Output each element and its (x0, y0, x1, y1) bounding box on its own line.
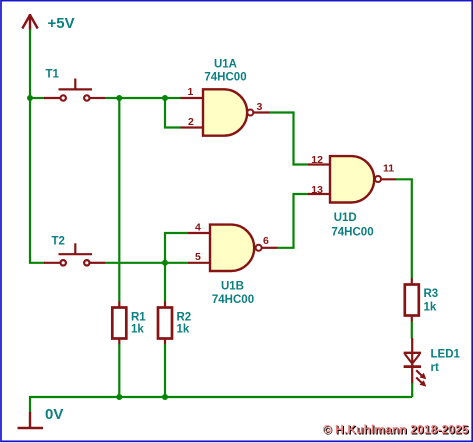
wire junction R1 to junction pin2 loop (119, 97, 165, 99)
junction T1 row / R1 (116, 95, 122, 101)
pin 2 of U1A (181, 126, 204, 128)
nand gate U1A body (203, 89, 247, 135)
pushbutton T2 (44, 243, 105, 265)
nand gate U1D body (330, 156, 374, 202)
svg-text:12: 12 (311, 154, 323, 166)
U1B output bubble (256, 245, 262, 251)
wire U1D.11 to R3 (396, 179, 412, 278)
U1D output bubble (375, 176, 381, 182)
pin 4 of U1B (188, 232, 210, 234)
wire into T2 (29, 262, 45, 264)
svg-text:1k: 1k (424, 302, 437, 314)
pin 6 of U1B (262, 247, 278, 249)
pin 11 of U1D (380, 178, 396, 180)
svg-text:R3: R3 (424, 288, 439, 300)
svg-text:+5V: +5V (48, 15, 75, 32)
copyright watermark (323, 423, 470, 438)
pin 5 of U1B (188, 262, 210, 264)
resistor R1 (112, 98, 126, 397)
wire to pin 5 (165, 262, 189, 264)
svg-text:6: 6 (263, 235, 269, 247)
svg-text:rt: rt (431, 362, 439, 374)
wire pin2 loop (165, 98, 181, 128)
junction T2 row / R2 / pin4 loop (162, 260, 168, 266)
junction rail / R2 (162, 394, 168, 400)
svg-text:R2: R2 (177, 311, 192, 323)
wire into T1 (30, 97, 45, 99)
svg-text:T1: T1 (46, 69, 60, 81)
pin 13 of U1D (308, 193, 330, 195)
junction rail / R1 (116, 394, 122, 400)
wire U1A.3 to U1D.12 (270, 113, 309, 165)
svg-text:74HC00: 74HC00 (212, 294, 254, 306)
wire pin4 loop (165, 233, 189, 263)
pushbutton T1 (44, 79, 105, 101)
wire LED1 to bottom rail (411, 383, 413, 397)
svg-text:T2: T2 (52, 235, 65, 247)
svg-text:© H.Kuhlmann 2018-2025: © H.Kuhlmann 2018-2025 (323, 423, 469, 437)
resistor R2 (158, 263, 172, 397)
nand gate U1B body (210, 225, 254, 271)
svg-text:74HC00: 74HC00 (331, 227, 373, 239)
power symbol 0V (18, 412, 44, 428)
pin 3 of U1A (253, 111, 270, 113)
junction T1 row / pin2 loop (162, 95, 168, 101)
svg-text:11: 11 (383, 162, 394, 174)
wire to pin 1 (165, 97, 181, 99)
wire T1 to junction R1 (105, 97, 119, 99)
svg-text:3: 3 (257, 101, 263, 113)
junction at +5V / T1 (27, 95, 33, 101)
wire U1B.6 to U1D.13 (277, 194, 309, 248)
pin 12 of U1D (308, 163, 330, 165)
power symbol +5V arrow (22, 14, 37, 30)
pin 1 of U1A (181, 97, 204, 99)
svg-text:LED1: LED1 (431, 348, 461, 360)
svg-text:U1D: U1D (334, 212, 357, 224)
svg-text:1k: 1k (131, 324, 144, 336)
svg-text:5: 5 (195, 251, 201, 263)
wire +5V vertical to T1 row (29, 29, 31, 98)
led LED1 (404, 338, 427, 387)
svg-text:1k: 1k (177, 324, 190, 336)
svg-text:R1: R1 (131, 311, 146, 323)
U1A output bubble (247, 110, 253, 116)
svg-text:74HC00: 74HC00 (204, 72, 246, 84)
resistor R3 (405, 278, 419, 322)
svg-text:2: 2 (188, 116, 194, 128)
svg-text:13: 13 (311, 184, 323, 196)
wire +5V vertical T1 to T2 row (29, 98, 31, 263)
svg-text:0V: 0V (45, 406, 63, 423)
svg-text:U1B: U1B (221, 281, 244, 293)
wire bottom 0V rail (30, 397, 412, 413)
svg-text:1: 1 (188, 86, 194, 98)
svg-text:U1A: U1A (214, 59, 237, 71)
svg-text:4: 4 (195, 221, 201, 233)
wire T2 to junction R2 (105, 262, 165, 264)
wire R3 to LED1 (411, 322, 413, 339)
